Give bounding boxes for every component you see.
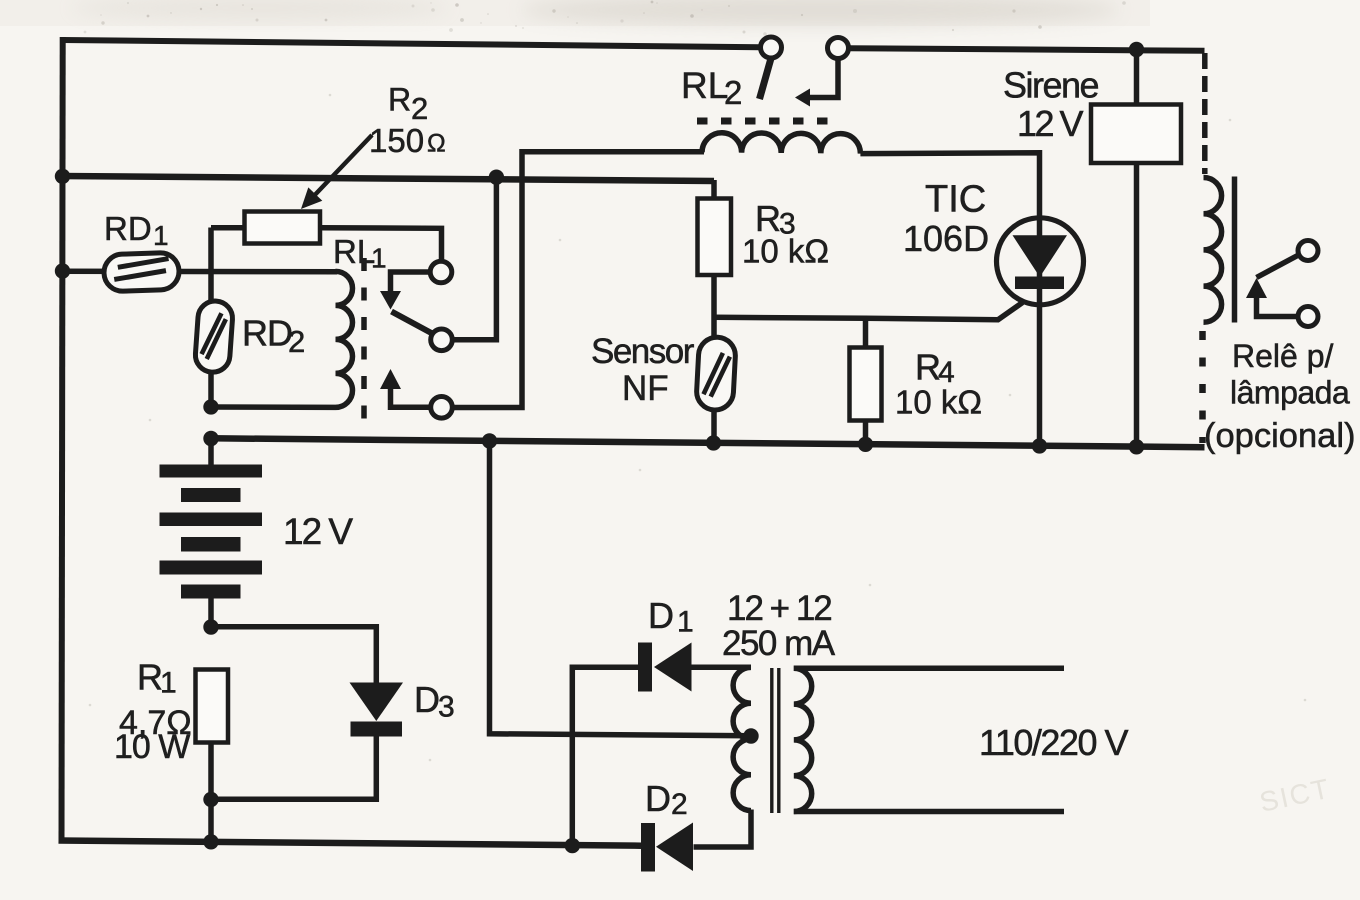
svg-text:D: D [645,778,671,819]
svg-text:RL: RL [681,65,728,106]
svg-text:12 + 12: 12 + 12 [727,589,831,628]
svg-text:D: D [414,679,440,720]
svg-text:(opcional): (opcional) [1204,417,1356,455]
svg-text:250 mA: 250 mA [722,624,836,663]
svg-text:RD: RD [242,313,292,354]
svg-text:Sirene: Sirene [1003,65,1099,106]
svg-text:TIC: TIC [925,179,986,221]
svg-text:Relê p/: Relê p/ [1232,338,1334,374]
svg-text:1: 1 [371,243,387,274]
svg-text:Ω: Ω [427,130,446,158]
svg-text:RD: RD [104,210,152,247]
svg-text:2: 2 [671,788,688,821]
svg-text:Sensor: Sensor [591,332,695,371]
svg-text:1: 1 [153,220,169,251]
svg-text:12 V: 12 V [1017,103,1084,144]
svg-text:10 kΩ: 10 kΩ [742,233,829,270]
svg-text:10 W: 10 W [114,728,190,766]
svg-text:2: 2 [288,324,305,359]
svg-text:NF: NF [622,369,669,408]
svg-text:106D: 106D [903,218,989,259]
svg-text:12 V: 12 V [283,511,353,552]
svg-text:lâmpada: lâmpada [1230,375,1350,411]
svg-text:1: 1 [160,667,177,700]
svg-text:R: R [388,82,411,118]
svg-text:3: 3 [438,691,455,724]
svg-text:150: 150 [369,122,424,159]
svg-text:110/220 V: 110/220 V [979,722,1128,763]
svg-text:2: 2 [411,91,428,126]
svg-text:2: 2 [724,74,742,111]
svg-text:1: 1 [677,606,694,639]
svg-text:10 kΩ: 10 kΩ [895,384,982,421]
svg-text:D: D [648,595,674,636]
svg-text:RL: RL [333,233,375,270]
